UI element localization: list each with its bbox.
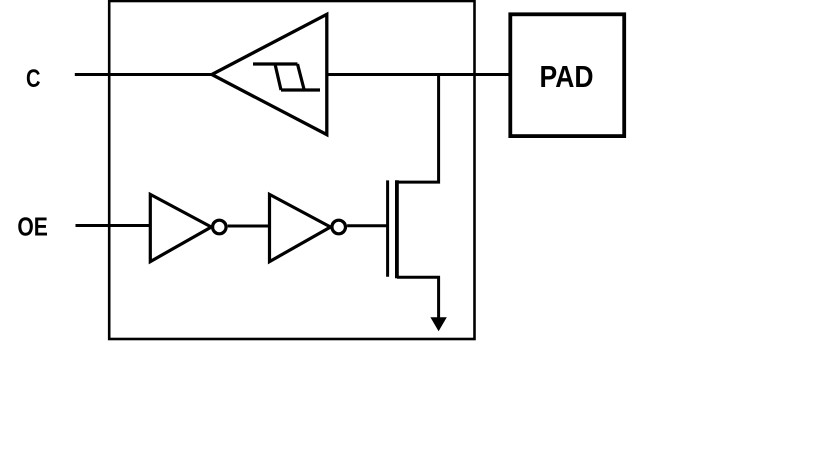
svg-text:OE: OE bbox=[17, 211, 48, 241]
svg-text:C: C bbox=[26, 65, 41, 93]
svg-text:PAD: PAD bbox=[540, 59, 594, 94]
